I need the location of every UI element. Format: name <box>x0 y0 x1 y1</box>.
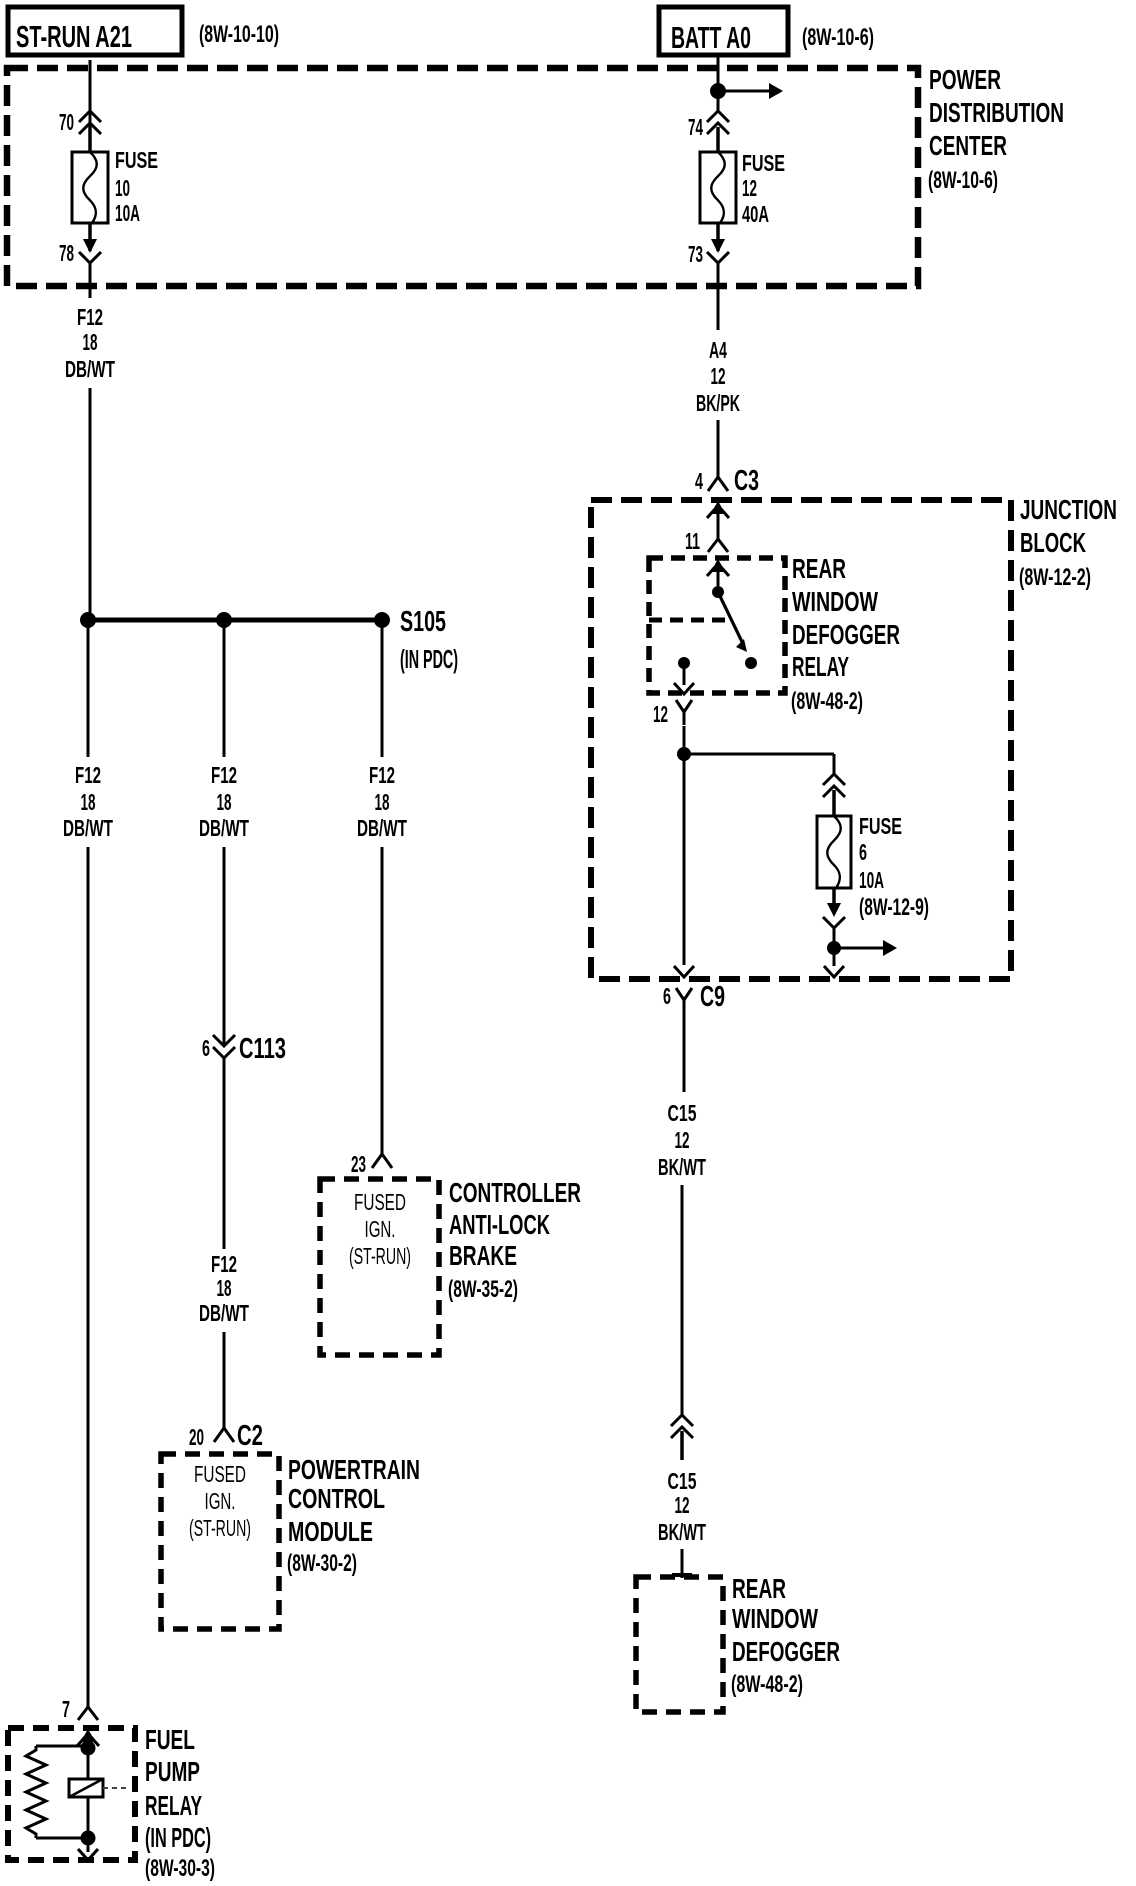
svg-text:(ST-RUN): (ST-RUN) <box>189 1515 251 1541</box>
svg-text:12: 12 <box>742 175 757 201</box>
svg-text:FUSE: FUSE <box>859 813 902 839</box>
wire ST-RUN A21 to fuse 10 <box>89 60 92 152</box>
connector pin 11 <box>708 539 728 552</box>
svg-text:REAR: REAR <box>732 1573 786 1604</box>
fuse 6 (10A) <box>817 816 851 888</box>
svg-text:11: 11 <box>685 528 700 554</box>
svg-text:MODULE: MODULE <box>288 1516 373 1547</box>
connector arrows pin 70 <box>79 111 101 122</box>
svg-text:12: 12 <box>653 701 668 727</box>
svg-text:6: 6 <box>202 1035 210 1061</box>
svg-text:(8W-48-2): (8W-48-2) <box>791 688 863 715</box>
connector C3 pin 4 <box>708 477 728 491</box>
svg-text:IGN.: IGN. <box>205 1488 236 1514</box>
svg-text:REAR: REAR <box>792 553 846 584</box>
wire to defogger <box>681 1549 684 1578</box>
svg-text:BRAKE: BRAKE <box>449 1240 517 1271</box>
relay switch blade <box>718 592 744 646</box>
node ST-RUN A21 header box <box>8 7 182 55</box>
svg-text:WINDOW: WINDOW <box>732 1603 818 1634</box>
connector C2 pin 20 <box>214 1428 234 1442</box>
svg-text:S105: S105 <box>400 606 446 638</box>
svg-text:4: 4 <box>695 468 703 494</box>
wire from splice <box>87 620 90 757</box>
svg-text:FUSE: FUSE <box>115 147 158 173</box>
svg-text:BK/PK: BK/PK <box>696 390 740 416</box>
svg-text:DB/WT: DB/WT <box>199 815 249 841</box>
svg-text:18: 18 <box>217 789 232 815</box>
wire from splice <box>223 620 226 757</box>
svg-text:C15: C15 <box>668 1100 697 1126</box>
connector pin 7 <box>78 1707 98 1720</box>
svg-text:10: 10 <box>115 175 130 201</box>
svg-text:FUSED: FUSED <box>354 1189 406 1215</box>
svg-text:70: 70 <box>59 109 74 135</box>
svg-text:(IN PDC): (IN PDC) <box>400 644 458 674</box>
connector arrows pin 74 <box>707 111 729 122</box>
svg-text:7: 7 <box>62 1696 70 1722</box>
wire down <box>681 1185 684 1415</box>
exit arrow bottom of relay <box>87 1838 90 1852</box>
svg-text:CONTROLLER: CONTROLLER <box>449 1177 581 1208</box>
arrow feed right <box>718 90 772 93</box>
wire col1 down to fuel pump relay <box>87 847 90 1707</box>
svg-text:(ST-RUN): (ST-RUN) <box>349 1243 411 1269</box>
fuse 12 (40A) <box>700 152 736 223</box>
svg-text:12: 12 <box>675 1492 690 1518</box>
svg-text:78: 78 <box>59 240 74 266</box>
wire C9 down <box>683 1013 686 1092</box>
junction dot left <box>80 612 96 628</box>
svg-text:73: 73 <box>688 241 703 267</box>
svg-text:A4: A4 <box>709 337 727 363</box>
svg-text:10A: 10A <box>859 867 884 893</box>
rear window defogger box <box>636 1577 723 1712</box>
wire BATT A0 down <box>717 55 720 112</box>
svg-text:23: 23 <box>351 1151 366 1177</box>
controller anti-lock brake box <box>320 1179 439 1355</box>
wire to junction block <box>717 420 720 477</box>
svg-text:18: 18 <box>83 329 98 355</box>
powertrain control module box <box>161 1454 279 1629</box>
wire resistor bottom <box>36 1837 88 1840</box>
svg-text:F12: F12 <box>75 762 101 788</box>
svg-text:JUNCTION: JUNCTION <box>1020 494 1117 525</box>
svg-text:C2: C2 <box>237 1420 263 1452</box>
wire to resistor top <box>36 1745 88 1748</box>
entry arrow into relay <box>81 1729 96 1742</box>
svg-text:F12: F12 <box>369 762 395 788</box>
svg-text:(8W-10-10): (8W-10-10) <box>199 21 279 48</box>
wire to PCM <box>223 1332 226 1428</box>
in-line connector break <box>671 1415 693 1426</box>
svg-text:CENTER: CENTER <box>929 130 1007 161</box>
svg-text:IGN.: IGN. <box>365 1216 396 1242</box>
connector arrows pin 78 <box>88 223 92 251</box>
relay output dot <box>678 657 690 669</box>
connector pin 12 <box>676 700 692 712</box>
exit arrowhead fuse wire <box>824 966 844 977</box>
svg-text:C9: C9 <box>700 981 725 1013</box>
relay node bottom dot <box>81 1831 96 1846</box>
svg-text:CONTROL: CONTROL <box>288 1483 385 1514</box>
wire fuse 12 out of PDC <box>717 263 720 330</box>
svg-text:F12: F12 <box>211 1251 237 1277</box>
svg-text:FUEL: FUEL <box>145 1724 195 1755</box>
svg-text:FUSE: FUSE <box>742 150 785 176</box>
svg-text:PUMP: PUMP <box>145 1756 200 1787</box>
wire branch down <box>833 754 836 775</box>
power distribution center box <box>7 68 918 286</box>
svg-text:18: 18 <box>375 789 390 815</box>
svg-text:F12: F12 <box>77 304 103 330</box>
relay common dot <box>712 586 724 598</box>
svg-text:POWER: POWER <box>929 64 1001 95</box>
svg-text:C3: C3 <box>734 465 759 497</box>
fuse 10 (10A) <box>72 152 108 223</box>
terminal bar <box>672 1573 692 1577</box>
wire from splice <box>381 620 384 757</box>
relay node top dot <box>81 1741 96 1756</box>
splice S105 bar <box>88 618 382 623</box>
svg-text:RELAY: RELAY <box>792 651 849 682</box>
resistor (relay coil suppression) <box>26 1746 46 1838</box>
svg-text:(8W-12-9): (8W-12-9) <box>859 894 929 921</box>
svg-text:POWERTRAIN: POWERTRAIN <box>288 1454 420 1485</box>
svg-text:40A: 40A <box>742 201 769 227</box>
svg-text:WINDOW: WINDOW <box>792 586 878 617</box>
rear window defogger relay box <box>649 558 785 693</box>
relay coil lead right <box>103 1787 127 1789</box>
wire col2 to C113 <box>223 847 226 1046</box>
svg-text:6: 6 <box>663 983 671 1009</box>
connector arrows pin 73 <box>716 223 720 251</box>
arrow feed right <box>834 947 884 950</box>
connector arrows fuse 6 top <box>823 774 845 785</box>
wire relay to C9 <box>683 726 686 965</box>
svg-text:(8W-30-3): (8W-30-3) <box>145 1855 215 1882</box>
wire C113 down <box>223 1058 226 1249</box>
svg-text:BK/WT: BK/WT <box>658 1154 706 1180</box>
wire col3 to CAB <box>381 847 384 1154</box>
svg-text:DB/WT: DB/WT <box>63 815 113 841</box>
svg-text:DB/WT: DB/WT <box>199 1300 249 1326</box>
node BATT A0 header box <box>659 7 788 55</box>
junction dot to B+ feed <box>710 83 726 99</box>
svg-text:18: 18 <box>217 1275 232 1301</box>
svg-text:DEFOGGER: DEFOGGER <box>732 1636 840 1667</box>
svg-text:DISTRIBUTION: DISTRIBUTION <box>929 97 1064 128</box>
relay output arrow down <box>683 663 686 685</box>
svg-text:74: 74 <box>688 114 703 140</box>
svg-text:12: 12 <box>711 363 726 389</box>
relay coil entry arrow <box>711 559 726 572</box>
svg-text:12: 12 <box>675 1127 690 1153</box>
svg-text:18: 18 <box>81 789 96 815</box>
relay internal partition <box>649 618 729 623</box>
svg-text:(8W-10-6): (8W-10-6) <box>802 24 874 51</box>
wire fuse 10 out of PDC <box>89 263 92 298</box>
junction dot right S105 <box>374 612 390 628</box>
svg-text:(8W-12-2): (8W-12-2) <box>1019 564 1091 591</box>
svg-text:DB/WT: DB/WT <box>357 815 407 841</box>
wire down to splice S105 <box>89 388 92 620</box>
svg-text:(IN PDC): (IN PDC) <box>145 1822 211 1853</box>
svg-text:F12: F12 <box>211 762 237 788</box>
connector C9 pin 6 <box>676 988 692 1000</box>
svg-text:20: 20 <box>189 1424 204 1450</box>
exit arrowhead left wire <box>674 966 694 977</box>
svg-text:FUSED: FUSED <box>194 1461 246 1487</box>
svg-text:(8W-48-2): (8W-48-2) <box>731 1671 803 1698</box>
svg-text:(8W-35-2): (8W-35-2) <box>448 1276 518 1303</box>
svg-text:ST-RUN A21: ST-RUN A21 <box>16 19 132 54</box>
wire coil to bottom dot <box>87 1797 90 1838</box>
svg-text:BLOCK: BLOCK <box>1020 527 1086 558</box>
svg-text:DEFOGGER: DEFOGGER <box>792 619 900 650</box>
svg-text:RELAY: RELAY <box>145 1790 202 1821</box>
wire to bottom dot <box>833 928 836 966</box>
svg-text:BK/WT: BK/WT <box>658 1519 706 1545</box>
svg-text:C15: C15 <box>668 1468 697 1494</box>
junction dot middle <box>216 612 232 628</box>
svg-text:(8W-30-2): (8W-30-2) <box>287 1550 357 1577</box>
svg-text:(8W-10-6): (8W-10-6) <box>928 167 998 194</box>
svg-text:6: 6 <box>859 839 867 865</box>
svg-text:10A: 10A <box>115 200 140 226</box>
relay contact dot <box>745 657 757 669</box>
junction block box <box>591 500 1011 979</box>
svg-text:DB/WT: DB/WT <box>65 356 115 382</box>
fuel pump relay box <box>8 1728 135 1860</box>
connector arrows fuse 6 bottom <box>832 888 836 905</box>
svg-text:C113: C113 <box>239 1033 286 1065</box>
junction dot B+ out <box>827 941 841 955</box>
relay coil element <box>87 1748 90 1779</box>
entry arrow into junction block <box>711 501 726 514</box>
svg-text:BATT A0: BATT A0 <box>671 20 751 55</box>
connector pin 23 <box>372 1154 392 1168</box>
svg-text:ANTI-LOCK: ANTI-LOCK <box>449 1209 550 1240</box>
in-line connector C113 <box>213 1035 235 1046</box>
wire to fuse 6 branch <box>684 753 834 756</box>
junction dot fuse branch <box>677 747 691 761</box>
